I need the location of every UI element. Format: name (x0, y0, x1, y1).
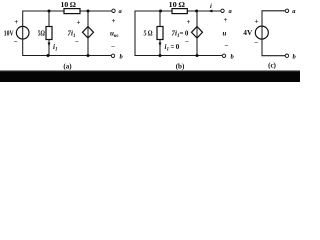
svg-text:(c): (c) (268, 61, 276, 69)
svg-text:(a): (a) (63, 62, 72, 70)
svg-text:u: u (223, 30, 227, 38)
svg-text:i: i (210, 3, 212, 10)
resistor 10 ohm (a) (64, 9, 80, 14)
dependent voltage source diamond 7i1=0 (b) (192, 27, 203, 39)
terminal a open circle (a) (112, 9, 115, 12)
node: junction dot bottom of dependent source branch (a) (87, 54, 90, 57)
svg-text:+: + (77, 19, 81, 27)
wire: left branch lower (c) (261, 39, 263, 56)
svg-text:b: b (120, 54, 124, 61)
wire: top rail right segment (a) (80, 10, 112, 12)
node: junction dot top of 5-ohm branch (a) (48, 10, 51, 13)
svg-text:+: + (14, 18, 18, 26)
dependent voltage source diamond 7i1 (a) (83, 27, 94, 39)
terminal a open circle (c) (285, 9, 288, 12)
svg-text:−: − (14, 38, 18, 46)
svg-text:10 Ω: 10 Ω (61, 0, 77, 9)
resistor 5 ohm (a) (46, 27, 52, 40)
voltage source 4V circle (c) (255, 26, 268, 39)
svg-text:+: + (112, 17, 116, 25)
wire: bottom rail (a) (23, 55, 112, 57)
wire: 5-ohm branch lower with current arrow (b) (159, 40, 161, 56)
terminal b open circle (c) (285, 54, 288, 57)
terminal b open circle (a) (111, 54, 114, 57)
wire: 5-ohm branch lower with current arrow i1 (a) (48, 40, 50, 56)
svg-text:+: + (255, 17, 259, 25)
svg-text:a: a (229, 8, 233, 15)
svg-text:5 Ω: 5 Ω (144, 30, 153, 38)
wire: left branch upper (c) (261, 10, 263, 26)
svg-text:−: − (75, 38, 79, 46)
wire: top rail (c) (262, 10, 285, 12)
wire: 5-ohm branch upper (a) (48, 11, 50, 27)
current arrowhead i1=0 pointing down (b) (159, 43, 162, 48)
node: junction dot bottom of 5-ohm branch (a) (47, 54, 50, 57)
svg-text:+: + (187, 18, 191, 26)
wire: dependent source branch lower (b) (196, 38, 198, 56)
svg-text:uoc: uoc (110, 30, 119, 40)
svg-text:−: − (254, 39, 258, 47)
current arrowhead i1 pointing down (a) (48, 43, 51, 48)
wire: dependent source branch upper (b) (196, 11, 198, 27)
resistor 5 ohm (b) (157, 27, 163, 40)
svg-text:b: b (231, 54, 235, 61)
wire: top rail left segment (a) (23, 10, 64, 12)
svg-text:b: b (293, 53, 297, 60)
wire: through source circle (a) (22, 26, 24, 39)
svg-text:10 Ω: 10 Ω (169, 0, 186, 9)
node: junction dot top of 5-ohm branch (b) (159, 10, 162, 13)
node: junction dot bottom of 5-ohm branch (b) (159, 54, 162, 57)
wire: left short-circuit branch (b) (134, 11, 136, 57)
svg-text:−: − (111, 43, 115, 51)
svg-text:10V: 10V (4, 29, 14, 37)
svg-text:i1 = 0: i1 = 0 (165, 43, 180, 53)
svg-text:7i1: 7i1 (68, 30, 76, 40)
current arrowhead i pointing left on top rail (b) (208, 10, 213, 13)
svg-text:a: a (292, 8, 296, 15)
wire: bottom rail (c) (262, 55, 285, 57)
voltage source 10V circle (a) (16, 26, 29, 39)
wire: top rail right segment (b) (187, 10, 221, 12)
node: junction dot top of dependent source branch (a) (87, 10, 90, 13)
svg-text:−: − (225, 42, 229, 50)
wire: bottom rail (b) (135, 55, 222, 57)
terminal b open circle (b) (222, 54, 225, 57)
node: junction dot top of dependent source branch (b) (195, 10, 198, 13)
wire: 5-ohm branch upper (b) (159, 11, 161, 27)
svg-text:−: − (185, 38, 189, 46)
wire: left branch lower (a) (22, 39, 24, 56)
wire: vertical line inside diamond (b) (196, 27, 198, 39)
svg-text:(b): (b) (176, 62, 185, 70)
svg-text:4V: 4V (243, 29, 253, 37)
wire: through source circle (c) (261, 26, 263, 39)
node: junction dot bottom of dependent source branch (b) (196, 54, 199, 57)
resistor 10 ohm (b) (172, 9, 187, 14)
wire: dependent source branch upper (a) (87, 11, 89, 27)
svg-text:5Ω: 5Ω (38, 30, 45, 38)
wire: dependent source branch lower (a) (87, 38, 89, 56)
wire: top rail left segment (b) (135, 10, 172, 12)
svg-text:+: + (224, 16, 228, 24)
wire: left branch upper (a) (22, 11, 24, 27)
wire: vertical line inside diamond (a) (87, 27, 89, 39)
svg-text:a: a (119, 8, 123, 15)
svg-text:i1: i1 (53, 43, 57, 53)
terminal a open circle (b) (221, 9, 224, 12)
